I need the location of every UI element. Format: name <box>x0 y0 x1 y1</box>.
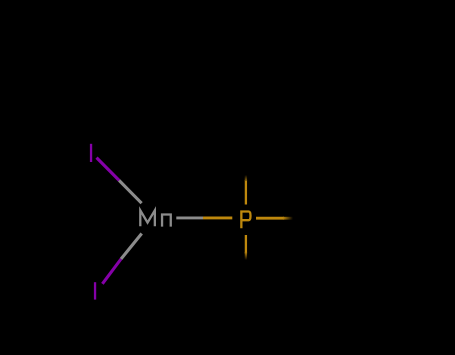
node: phosphorus atom P <box>241 212 250 229</box>
wire: bond Mn-I (lower), manganese half <box>121 234 142 260</box>
wire: bond Mn-P, phosphorus half <box>203 216 232 219</box>
node: iodine atom I (lower) <box>94 282 96 299</box>
wire: bond P-C (right), fade to carbon black <box>283 217 293 220</box>
wire: bond Mn-I (upper), manganese half <box>119 180 142 203</box>
wire: bond Mn-P, manganese half <box>176 216 203 219</box>
wire: bond P-C (down), phosphorus half <box>245 235 247 254</box>
node: iodine atom I (upper) <box>90 144 92 162</box>
wire: bond P-C (up), phosphorus half <box>245 180 247 205</box>
wire: bond Mn-I (lower), iodine half <box>102 259 121 284</box>
node: manganese atom Mn, letter n <box>162 215 171 227</box>
wire: bond Mn-I (upper), iodine half <box>97 158 120 181</box>
wire: bond P-C (up), fade to carbon black <box>245 175 247 181</box>
node: manganese atom Mn, letter M <box>140 210 155 226</box>
wire: bond P-C (down), fade to carbon black <box>245 252 247 260</box>
wire: bond P-C (right), phosphorus half <box>256 217 284 220</box>
